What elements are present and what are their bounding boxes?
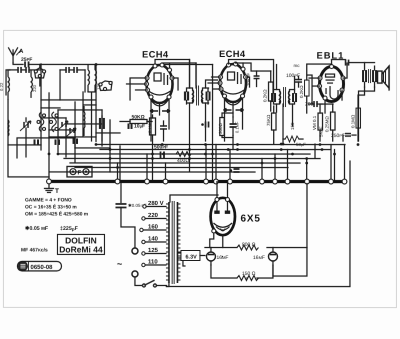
node junction dots [48, 63, 360, 169]
wire V2 top [208, 60, 274, 142]
svg-text:0.1MΩ: 0.1MΩ [351, 114, 356, 128]
filter line [205, 247, 307, 249]
capacitor star mid [230, 169, 240, 172]
wire antenna line drop [211, 65, 213, 180]
svg-text:T: T [55, 188, 59, 195]
svg-text:ECH4: ECH4 [219, 49, 246, 59]
tube ECH4 V2 [218, 62, 248, 105]
output transformer T3 [363, 63, 376, 88]
svg-text:6.3V: 6.3V [185, 254, 197, 260]
tuning capacitor CV1 [20, 118, 31, 138]
main ground bus [49, 180, 345, 183]
svg-text:0.2KΩ: 0.2KΩ [263, 89, 268, 102]
wire transformer HV [170, 195, 218, 202]
oscillator coil L5 [83, 106, 86, 136]
coil L3 [88, 64, 89, 92]
svg-text:F: F [77, 169, 81, 176]
speaker return wire [359, 87, 375, 141]
svg-text:mc: mc [294, 63, 301, 68]
logo plate 0650-08 [17, 261, 61, 271]
wire front-end mesh [6, 64, 120, 180]
bus node terminals [47, 179, 347, 184]
bandswitch contact S2 [37, 112, 46, 132]
wire EBL1 top [309, 60, 347, 114]
speaker LS [378, 66, 390, 90]
model box DOLFIN DoReMi 44 [57, 234, 104, 254]
capacitor input pair [10, 67, 41, 73]
svg-text:VM 0.1: VM 0.1 [312, 115, 317, 130]
svg-text:A: A [19, 48, 24, 55]
wire lower left mesh [17, 138, 75, 158]
svg-text:‡225PF: ‡225PF [60, 226, 79, 233]
svg-text:220: 220 [32, 84, 37, 92]
svg-text:MF 467Kc/s: MF 467Kc/s [21, 247, 48, 253]
coil L4 [95, 64, 96, 92]
coil L2 [31, 70, 32, 98]
svg-text:10KPF: 10KPF [246, 73, 251, 86]
capacitor front pair 2 [60, 67, 85, 73]
wire IFT2 [277, 65, 295, 145]
wire V1 top [127, 59, 197, 141]
tube 6X5 [211, 198, 235, 236]
svg-text:~: ~ [117, 259, 122, 269]
trimmer capacitor CT2 [66, 128, 76, 137]
svg-text:ECH4: ECH4 [142, 49, 169, 59]
svg-text:0.1MΩ: 0.1MΩ [148, 121, 153, 133]
bandswitch contact S4 [99, 81, 112, 91]
svg-text:6X5: 6X5 [240, 214, 260, 225]
tube EBL1 [318, 65, 346, 102]
IF transformer T2 [272, 87, 296, 107]
capacitor 16MF B [268, 252, 277, 261]
coil L1 [8, 70, 10, 100]
capacitor trio bottom [35, 139, 39, 145]
svg-text:75KΩ: 75KΩ [266, 114, 271, 126]
wire EBL1 mesh verticals [307, 75, 358, 158]
svg-text:GAMME = 4 + FONO: GAMME = 4 + FONO [25, 197, 72, 203]
wire IFT1 [189, 59, 217, 171]
svg-text:DoReMi 44: DoReMi 44 [59, 244, 103, 254]
IF transformer T1 [185, 85, 210, 105]
resistor 0.1M box [150, 118, 156, 135]
wire 6X5 plates [210, 182, 228, 248]
mains terminal 2 [132, 271, 138, 277]
svg-text:OC = 16÷35 É 33÷50 m: OC = 16÷35 É 33÷50 m [25, 203, 77, 210]
ground T [44, 184, 53, 193]
wire mid mesh horizontals [50, 144, 345, 172]
tuning arrows V1 [150, 109, 170, 112]
svg-text:10μF: 10μF [134, 123, 145, 129]
bandswitch contact S3 [50, 112, 59, 132]
antenna A [9, 48, 22, 63]
tube ECH4 V1 [145, 63, 175, 106]
wire bottom return [166, 285, 349, 287]
svg-text:OM = 185÷425 É 425÷580 m: OM = 185÷425 É 425÷580 m [25, 210, 89, 217]
tuning arrows V2 [224, 109, 244, 112]
capacitor with dot near IFT1 [201, 122, 208, 128]
filament 6.3V box [181, 250, 200, 260]
coil L6 left column [7, 120, 10, 136]
wire mesh risers [117, 144, 344, 180]
svg-text:300Ω: 300Ω [218, 123, 223, 135]
capacitor 16MF A [206, 252, 215, 261]
wire right long vertical [349, 161, 351, 285]
mains terminal 1 [132, 248, 138, 254]
power switch SW [142, 280, 156, 287]
phono input F [67, 166, 92, 177]
power transformer T4 [166, 201, 181, 284]
svg-text:150: 150 [290, 122, 295, 130]
svg-text:0.22: 0.22 [0, 82, 4, 91]
svg-text:0.25MΩ: 0.25MΩ [325, 116, 330, 133]
capacitor 0.05 star mains [120, 183, 122, 202]
trimmer capacitor CT1 [58, 121, 68, 130]
svg-text:0650-08: 0650-08 [30, 264, 53, 271]
svg-text:5KPF: 5KPF [319, 126, 324, 137]
capacitor grid EBL1 [346, 60, 375, 66]
capacitor 0.1 near V1 [160, 121, 167, 141]
svg-text:✱0.05 MF: ✱0.05 MF [25, 226, 49, 232]
svg-text:0.2KΩ: 0.2KΩ [299, 85, 304, 98]
bandswitch contact S1 [34, 64, 45, 86]
